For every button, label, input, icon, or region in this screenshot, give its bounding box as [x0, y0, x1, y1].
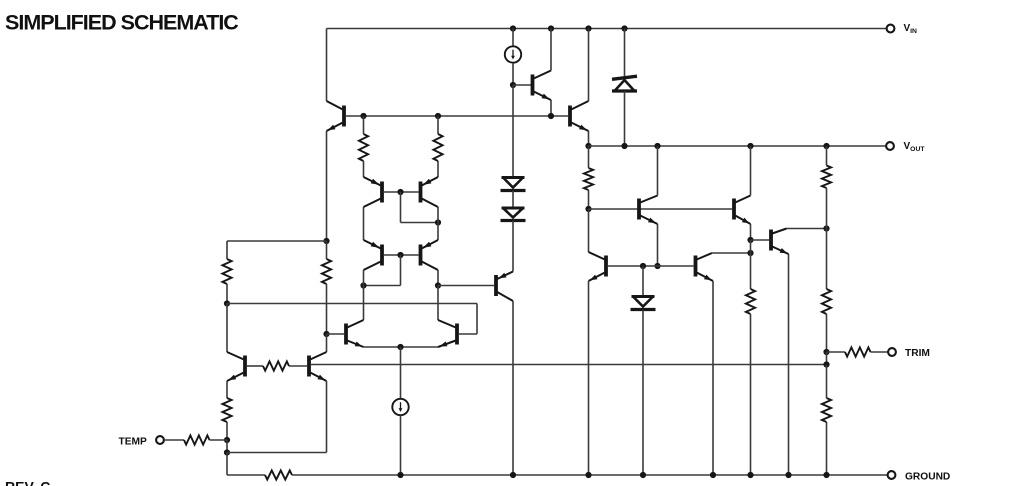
- node: [823, 472, 829, 478]
- node: [435, 282, 441, 288]
- label GROUND: [905, 472, 950, 483]
- wire: [401, 222, 439, 224]
- label title SIMPLIFIED SCHEMATIC: [5, 11, 238, 35]
- label VIN: [904, 23, 918, 35]
- wire: [226, 453, 228, 476]
- node: [747, 250, 753, 256]
- node: [785, 472, 791, 478]
- resistor R8: [822, 166, 831, 189]
- wire: [588, 190, 590, 209]
- wire: [750, 146, 752, 196]
- wire: [787, 228, 827, 230]
- label REV. C: [5, 479, 50, 486]
- wire: [226, 304, 228, 353]
- wire: [437, 223, 439, 241]
- resistor R12: [184, 435, 210, 444]
- wire: [400, 416, 402, 476]
- resistor R10: [822, 398, 831, 422]
- node: [435, 113, 441, 119]
- wire: [363, 116, 365, 134]
- svg-text:VOUT: VOUT: [904, 141, 926, 153]
- wire: [642, 266, 644, 297]
- wire: [589, 208, 733, 210]
- node: [640, 263, 646, 269]
- terminal VOUT: [886, 142, 894, 150]
- transistor Q7: [421, 240, 439, 270]
- label TRIM: [905, 348, 930, 359]
- wire: [384, 191, 419, 193]
- node: [548, 113, 554, 119]
- wire: [589, 145, 887, 147]
- svg-text:GROUND: GROUND: [905, 472, 950, 483]
- terminal TEMP: [156, 436, 164, 444]
- wire: [712, 281, 714, 475]
- wire: [826, 365, 828, 399]
- wire: [624, 29, 626, 78]
- node: [747, 472, 753, 478]
- node: [585, 206, 591, 212]
- svg-text:SIMPLIFIED SCHEMATIC: SIMPLIFIED SCHEMATIC: [5, 11, 238, 35]
- transistor Q2: [533, 71, 552, 101]
- zener diode Z1: [612, 76, 637, 91]
- wire: [437, 116, 439, 134]
- transistor Q17: [771, 229, 789, 255]
- resistor R5: [222, 398, 231, 422]
- wire: [657, 224, 659, 266]
- wire: [400, 192, 402, 223]
- wire: [750, 240, 752, 253]
- transistor Q9: [438, 320, 457, 347]
- wire: [476, 304, 478, 335]
- node: [747, 237, 753, 243]
- node: [397, 344, 403, 350]
- resistor R11: [263, 361, 289, 370]
- transistor Q13: [639, 196, 658, 225]
- transistor Q12: [496, 272, 513, 302]
- terminal TRIM: [888, 348, 896, 356]
- node: [323, 238, 329, 244]
- wire: [364, 285, 401, 287]
- wire: [327, 28, 887, 30]
- wire: [226, 381, 228, 398]
- wire: [363, 161, 365, 177]
- terminal GROUND: [888, 471, 896, 479]
- node: [323, 331, 329, 337]
- node: [510, 25, 516, 31]
- node: [585, 25, 591, 31]
- node: [435, 219, 441, 225]
- svg-text:VIN: VIN: [904, 23, 918, 35]
- wire: [326, 381, 328, 453]
- wire: [750, 253, 752, 289]
- wire: [588, 281, 590, 475]
- wire: [164, 439, 184, 441]
- wire: [512, 29, 514, 47]
- wire: [871, 351, 889, 353]
- wire: [657, 146, 659, 196]
- node: [360, 113, 366, 119]
- wire: [826, 229, 828, 290]
- wire: [750, 314, 752, 475]
- wire: [826, 352, 828, 365]
- wire: [437, 161, 439, 177]
- wire: [588, 209, 590, 252]
- wire: [326, 334, 328, 352]
- label TEMP: [119, 437, 148, 448]
- node: [510, 82, 516, 88]
- wire: [827, 351, 846, 353]
- wire: [512, 63, 514, 85]
- wire: [826, 314, 828, 352]
- node: [397, 252, 403, 258]
- node: [510, 472, 516, 478]
- node: [654, 143, 660, 149]
- wire: [788, 254, 790, 475]
- node: [747, 143, 753, 149]
- wire: [512, 301, 514, 475]
- node: [823, 349, 829, 355]
- wire: [346, 115, 568, 117]
- node: [710, 472, 716, 478]
- wire: [437, 270, 439, 286]
- wire: [642, 310, 644, 476]
- wire: [550, 100, 552, 116]
- wire: [227, 303, 477, 305]
- wire: [400, 255, 402, 286]
- wire: [226, 284, 228, 304]
- wire: [227, 452, 327, 454]
- wire: [459, 333, 477, 335]
- transistor Q3: [570, 101, 589, 131]
- diode D3: [631, 297, 656, 310]
- wire: [247, 365, 263, 367]
- wire: [437, 207, 439, 223]
- resistor R14: [845, 347, 871, 356]
- label VOUT: [904, 141, 926, 153]
- wire: [608, 265, 694, 267]
- wire: [437, 286, 439, 321]
- diode D1: [501, 178, 526, 191]
- wire: [624, 91, 626, 146]
- node: [823, 361, 829, 367]
- wire: [363, 270, 365, 286]
- wire: [384, 254, 419, 256]
- wire: [512, 191, 514, 209]
- resistor R9: [822, 289, 831, 314]
- wire: [326, 241, 328, 259]
- transistor Q16: [696, 253, 714, 281]
- node: [823, 143, 829, 149]
- node: [621, 25, 627, 31]
- wire: [826, 422, 828, 475]
- wire: [210, 439, 228, 441]
- node: [224, 300, 230, 306]
- transistor Q5: [421, 177, 439, 207]
- wire: [364, 346, 439, 348]
- transistor Q1: [327, 101, 345, 131]
- current source I2: [392, 399, 408, 415]
- wire: [227, 240, 327, 242]
- node: [621, 143, 627, 149]
- wire: [227, 474, 265, 476]
- node: [397, 189, 403, 195]
- transistor Q11: [309, 352, 327, 381]
- transistor Q10: [227, 352, 245, 381]
- wire: [512, 221, 514, 272]
- wire: [400, 347, 402, 399]
- wire: [588, 131, 590, 146]
- wire: [289, 365, 307, 367]
- node: [823, 225, 829, 231]
- wire: [326, 29, 328, 102]
- wire: [326, 131, 328, 241]
- wire: [363, 207, 365, 240]
- wire: [438, 285, 494, 287]
- wire: [826, 146, 828, 166]
- wire: [363, 286, 365, 321]
- terminal VIN: [887, 25, 895, 33]
- wire: [326, 284, 328, 334]
- resistor R1: [359, 134, 368, 161]
- svg-text:TRIM: TRIM: [905, 348, 930, 359]
- wire: [311, 364, 827, 366]
- svg-text:REV. C: REV. C: [5, 479, 50, 486]
- wire: [226, 241, 228, 259]
- wire: [226, 422, 228, 440]
- wire: [327, 333, 345, 335]
- resistor R3: [222, 259, 231, 284]
- node: [548, 25, 554, 31]
- wire: [512, 85, 514, 178]
- wire: [292, 474, 888, 476]
- resistor R6: [584, 168, 593, 190]
- transistor Q6: [364, 240, 383, 270]
- wire: [550, 29, 552, 71]
- node: [654, 263, 660, 269]
- wire: [588, 29, 590, 102]
- transistor Q14: [734, 196, 751, 225]
- wire: [751, 239, 770, 241]
- wire: [588, 146, 590, 168]
- node: [224, 449, 230, 455]
- transistor Q15: [589, 252, 607, 281]
- wire: [513, 84, 531, 86]
- node: [585, 472, 591, 478]
- transistor Q8: [346, 320, 364, 347]
- diode D2: [501, 208, 526, 221]
- wire: [712, 252, 751, 254]
- resistor R2: [433, 134, 442, 161]
- svg-text:TEMP: TEMP: [119, 437, 148, 448]
- resistor R7: [746, 289, 755, 314]
- resistor R4: [322, 259, 331, 284]
- current source I1: [505, 46, 521, 62]
- wire: [826, 188, 828, 229]
- node: [360, 282, 366, 288]
- node: [397, 472, 403, 478]
- node: [224, 437, 230, 443]
- resistor R13: [265, 470, 292, 479]
- wire: [226, 440, 228, 453]
- transistor Q4: [364, 177, 383, 207]
- node: [585, 143, 591, 149]
- node: [640, 472, 646, 478]
- wire: [750, 224, 752, 240]
